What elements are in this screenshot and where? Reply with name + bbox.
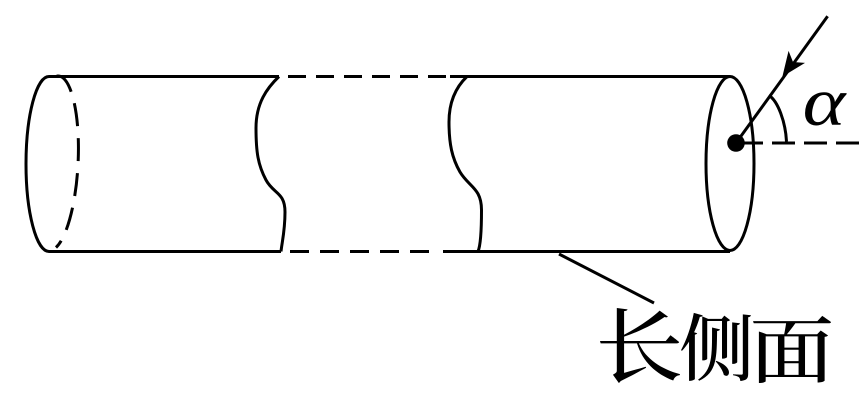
svg-text:α: α (803, 65, 847, 141)
